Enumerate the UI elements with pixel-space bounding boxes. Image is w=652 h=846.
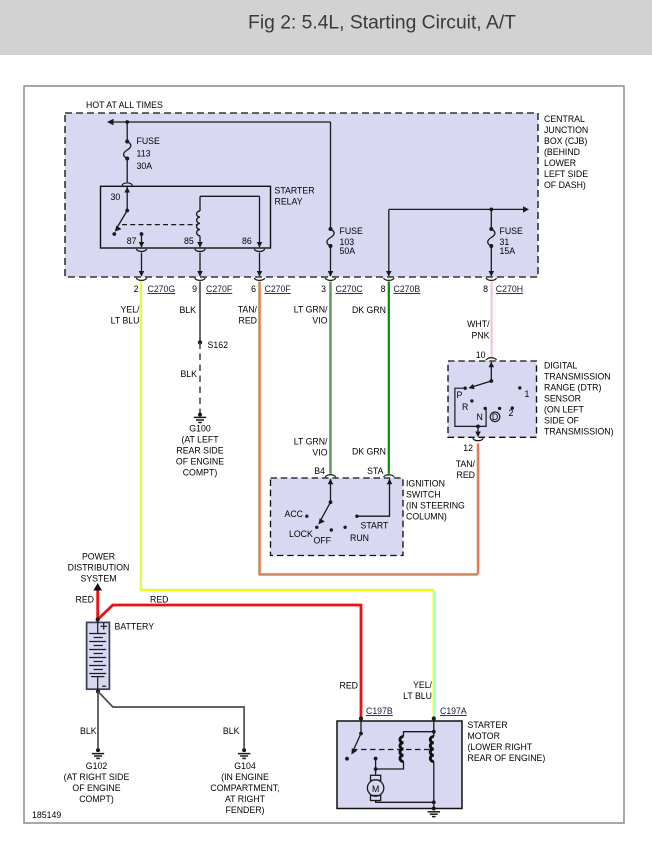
- svg-text:15A: 15A: [500, 246, 516, 256]
- svg-text:TAN/: TAN/: [238, 305, 258, 315]
- svg-text:FUSE: FUSE: [137, 136, 161, 146]
- svg-text:30A: 30A: [137, 161, 153, 171]
- svg-text:SIDE OF: SIDE OF: [544, 416, 579, 426]
- label G102: [64, 761, 130, 804]
- svg-text:BOX (CJB): BOX (CJB): [544, 136, 587, 146]
- svg-text:C270B: C270B: [394, 284, 421, 294]
- svg-text:(ON LEFT: (ON LEFT: [544, 405, 585, 415]
- battery: [87, 622, 110, 690]
- node C197A junction: [432, 730, 436, 734]
- svg-text:REAR SIDE: REAR SIDE: [176, 446, 223, 456]
- wire coil2 to ground: [433, 762, 435, 809]
- label CENTRAL JUNCTION BOX: [544, 114, 588, 190]
- ground G104: [238, 748, 250, 758]
- node C197B end: [359, 716, 363, 720]
- svg-text:DISTRIBUTION: DISTRIBUTION: [68, 563, 130, 573]
- wire motor to ground bus: [376, 801, 434, 803]
- svg-text:DIGITAL: DIGITAL: [544, 361, 578, 371]
- svg-text:LT BLU: LT BLU: [111, 316, 140, 326]
- wire C197A through coil2: [433, 721, 435, 737]
- ground G102: [92, 748, 104, 758]
- svg-text:LOCK: LOCK: [289, 529, 313, 539]
- wire fuse113 drop: [126, 122, 128, 141]
- node C197A end: [432, 716, 436, 720]
- pin 85 wire: [199, 236, 201, 247]
- svg-text:BATTERY: BATTERY: [115, 622, 155, 632]
- DTR position N: [484, 407, 487, 410]
- wire fuse103 to C270C: [330, 246, 332, 276]
- node fuse113 tap: [125, 120, 129, 124]
- svg-text:LT GRN/: LT GRN/: [294, 437, 328, 447]
- wire coil1 top: [404, 732, 434, 737]
- node motor ground junction: [432, 800, 436, 804]
- svg-text:C270F: C270F: [206, 284, 232, 294]
- DTR sensor box: [448, 361, 537, 437]
- svg-text:STARTER: STARTER: [275, 186, 315, 196]
- connector arc STA: [384, 475, 394, 478]
- svg-text:85: 85: [184, 236, 194, 246]
- svg-text:BLK: BLK: [180, 369, 197, 379]
- svg-text:RANGE (DTR): RANGE (DTR): [544, 383, 601, 393]
- node pin12 tap: [476, 425, 480, 429]
- title bar: [0, 0, 652, 55]
- svg-text:OFF: OFF: [314, 536, 332, 546]
- connector arcs below CJB: [136, 278, 496, 281]
- wire coil top loop to pin 86: [200, 196, 260, 247]
- svg-text:N: N: [477, 412, 483, 422]
- svg-text:S162: S162: [208, 340, 229, 350]
- svg-text:SYSTEM: SYSTEM: [81, 574, 117, 584]
- svg-text:P: P: [457, 390, 463, 400]
- label STARTER MOTOR: [468, 720, 546, 763]
- contact OFF: [330, 528, 333, 531]
- svg-text:STARTER: STARTER: [468, 720, 508, 730]
- solenoid switch: [360, 719, 362, 734]
- svg-text:FUSE: FUSE: [340, 226, 364, 236]
- contact ACC: [305, 515, 308, 518]
- wire feed B (to fuse 31): [389, 209, 526, 276]
- svg-text:G104: G104: [234, 761, 256, 771]
- svg-text:(IN STEERING: (IN STEERING: [406, 501, 465, 511]
- wire YEL/LT BLU C270G run: [140, 282, 434, 717]
- svg-text:MOTOR: MOTOR: [468, 731, 500, 741]
- contact RUN: [343, 526, 346, 529]
- svg-text:2: 2: [134, 284, 139, 294]
- svg-text:LT BLU: LT BLU: [403, 691, 432, 701]
- DTR exit arrow pin 12: [477, 426, 479, 436]
- wire fuse113 to relay pin30: [126, 159, 128, 183]
- wire BLK to G102: [97, 692, 99, 749]
- mech dashed link starter: [352, 749, 430, 751]
- svg-text:B4: B4: [314, 466, 325, 476]
- svg-text:FENDER): FENDER): [226, 805, 265, 815]
- svg-text:86: 86: [242, 236, 252, 246]
- svg-text:2: 2: [509, 408, 514, 418]
- svg-text:D: D: [492, 412, 498, 422]
- svg-text:113: 113: [137, 149, 151, 159]
- svg-text:C270H: C270H: [496, 284, 523, 294]
- svg-text:87: 87: [127, 236, 137, 246]
- svg-text:RED: RED: [239, 316, 257, 326]
- svg-text:(AT RIGHT SIDE: (AT RIGHT SIDE: [64, 772, 130, 782]
- label POWER DISTRIBUTION SYSTEM: [68, 552, 130, 584]
- DTR position 1: [518, 386, 521, 389]
- wires relay to CJB edge: [142, 253, 260, 276]
- svg-text:TAN/: TAN/: [456, 459, 476, 469]
- connector arc pin 12: [473, 438, 483, 441]
- svg-text:TRANSMISSION): TRANSMISSION): [544, 427, 614, 437]
- svg-text:6: 6: [251, 284, 256, 294]
- arrow C270B exit: [386, 271, 392, 277]
- svg-text:POWER: POWER: [82, 552, 115, 562]
- pin row labels: [134, 284, 523, 294]
- node battery positive: [96, 617, 100, 621]
- svg-text:185149: 185149: [32, 810, 61, 820]
- label G100: [176, 424, 224, 478]
- svg-text:SWITCH: SWITCH: [406, 490, 441, 500]
- svg-text:OF DASH): OF DASH): [544, 180, 586, 190]
- svg-text:C270C: C270C: [336, 284, 363, 294]
- solenoid coil 2: [430, 737, 434, 762]
- svg-text:PNK: PNK: [472, 331, 490, 341]
- wire hot feed top: [110, 122, 331, 229]
- svg-text:12: 12: [463, 443, 473, 453]
- svg-text:R: R: [462, 402, 468, 412]
- svg-text:50A: 50A: [340, 246, 356, 256]
- svg-text:8: 8: [483, 284, 488, 294]
- wire START to STA: [357, 479, 390, 516]
- svg-text:8: 8: [381, 284, 386, 294]
- motor M: [367, 775, 383, 800]
- arrow to other circuits left: [107, 119, 114, 125]
- svg-text:RELAY: RELAY: [275, 197, 303, 207]
- splice S162: [198, 340, 202, 344]
- wire BLK C270F-9: [199, 282, 201, 343]
- relay coil: [197, 211, 200, 236]
- svg-text:COMPARTMENT,: COMPARTMENT,: [210, 783, 279, 793]
- contact P: [464, 387, 467, 390]
- wire BLK to G104: [98, 692, 244, 749]
- svg-text:LEFT SIDE: LEFT SIDE: [544, 169, 588, 179]
- DTR range bracket: [455, 388, 486, 426]
- svg-text:G100: G100: [189, 424, 211, 434]
- ignition switch arm: [329, 500, 333, 504]
- connector arc B4: [325, 475, 335, 478]
- svg-text:G102: G102: [86, 761, 108, 771]
- central junction box CJB: [65, 113, 538, 277]
- ignition switch box: [271, 478, 404, 556]
- svg-text:HOT AT ALL TIMES: HOT AT ALL TIMES: [86, 100, 163, 110]
- wire fuse31 to C270H: [490, 246, 492, 276]
- svg-text:TRANSMISSION: TRANSMISSION: [544, 372, 611, 382]
- svg-text:CENTRAL: CENTRAL: [544, 114, 585, 124]
- ground G100: [194, 413, 206, 423]
- svg-text:COLUMN): COLUMN): [406, 512, 447, 522]
- contact solenoid: [345, 757, 349, 761]
- svg-text:RED: RED: [340, 681, 358, 691]
- node fuse31 tap: [489, 208, 493, 212]
- contact 87a: [112, 232, 116, 236]
- ignition entry arrow B4: [330, 479, 332, 502]
- relay switch arm: [125, 209, 129, 213]
- svg-text:ACC: ACC: [285, 509, 303, 519]
- ground starter case: [428, 807, 440, 817]
- DTR position 2: [511, 406, 514, 409]
- svg-text:BLK: BLK: [179, 305, 196, 315]
- svg-text:Fig 2: 5.4L, Starting Circuit,: Fig 2: 5.4L, Starting Circuit, A/T: [248, 13, 516, 34]
- pin 87 wire: [141, 234, 143, 247]
- svg-text:IGNITION: IGNITION: [406, 479, 445, 489]
- starter relay box: [101, 186, 271, 248]
- svg-text:RED: RED: [457, 470, 475, 480]
- svg-text:10: 10: [476, 350, 486, 360]
- fuse F113 30A: [124, 136, 160, 171]
- wire TAN/RED C270F-6 run: [259, 282, 479, 576]
- svg-text:YEL/: YEL/: [413, 680, 433, 690]
- svg-text:(BEHIND: (BEHIND: [544, 147, 580, 157]
- svg-text:OF ENGINE: OF ENGINE: [72, 783, 120, 793]
- motor feed stub: [374, 757, 378, 761]
- connector arc pin 10: [486, 358, 496, 361]
- label DIGITAL TRANSMISSION RANGE: [544, 361, 614, 437]
- svg-text:BLK: BLK: [223, 726, 240, 736]
- svg-text:START: START: [361, 521, 390, 531]
- svg-text:C270G: C270G: [148, 284, 176, 294]
- svg-text:JUNCTION: JUNCTION: [544, 125, 588, 135]
- svg-text:C197B: C197B: [366, 706, 393, 716]
- svg-text:BLK: BLK: [80, 726, 97, 736]
- connector arcs below relay: [136, 249, 146, 252]
- mech dashed link: [122, 224, 197, 226]
- svg-text:3: 3: [321, 284, 326, 294]
- svg-text:M: M: [372, 784, 379, 794]
- svg-text:VIO: VIO: [312, 448, 327, 458]
- contact 87 node: [140, 232, 144, 236]
- wire coil1 bottom to motor: [376, 762, 404, 770]
- svg-text:FUSE: FUSE: [500, 226, 524, 236]
- svg-text:LT GRN/: LT GRN/: [294, 305, 328, 315]
- svg-text:DK GRN: DK GRN: [352, 447, 386, 457]
- svg-text:(IN ENGINE: (IN ENGINE: [221, 772, 269, 782]
- wire DK GRN C270B: [388, 282, 390, 474]
- svg-text:VIO: VIO: [312, 316, 327, 326]
- contact LOCK: [315, 526, 318, 529]
- svg-text:RED: RED: [76, 595, 94, 605]
- wire RED battery feed: [96, 591, 99, 620]
- svg-text:RED: RED: [150, 595, 168, 605]
- svg-text:1: 1: [525, 389, 530, 399]
- DTR entry arrow: [490, 362, 492, 381]
- svg-text:YEL/: YEL/: [121, 305, 141, 315]
- svg-text:DK GRN: DK GRN: [352, 305, 386, 315]
- DTR position R: [470, 399, 473, 402]
- contact START: [355, 515, 358, 518]
- svg-text:C270F: C270F: [265, 284, 291, 294]
- fuse F31 15A: [488, 226, 523, 256]
- svg-text:OF ENGINE: OF ENGINE: [176, 457, 224, 467]
- svg-text:LOWER: LOWER: [544, 158, 576, 168]
- svg-text:(AT LEFT: (AT LEFT: [181, 435, 219, 445]
- svg-text:SENSOR: SENSOR: [544, 394, 581, 404]
- svg-text:(LOWER RIGHT: (LOWER RIGHT: [468, 742, 533, 752]
- starter motor box: [337, 721, 462, 809]
- svg-text:C197A: C197A: [440, 706, 467, 716]
- svg-text:COMPT): COMPT): [79, 794, 114, 804]
- DTR switch arm: [489, 379, 493, 383]
- svg-text:WHT/: WHT/: [467, 319, 490, 329]
- node battery negative: [96, 689, 100, 693]
- arrow to power distribution: [93, 583, 102, 591]
- fuse F103 50A: [327, 226, 363, 256]
- svg-text:9: 9: [192, 284, 197, 294]
- wire BLK dashed to G100: [199, 343, 201, 414]
- svg-text:REAR OF ENGINE): REAR OF ENGINE): [468, 753, 546, 763]
- DTR position D: [498, 407, 501, 410]
- svg-text:RUN: RUN: [350, 533, 369, 543]
- solenoid coil 1: [400, 737, 403, 762]
- svg-text:COMPT): COMPT): [183, 468, 218, 478]
- svg-text:STA: STA: [367, 466, 384, 476]
- arrow to other circuits right: [523, 206, 529, 212]
- label IGNITION SWITCH: [406, 479, 465, 522]
- connector arc pin 30: [122, 183, 132, 186]
- svg-text:30: 30: [111, 192, 121, 202]
- svg-text:AT RIGHT: AT RIGHT: [225, 794, 266, 804]
- label G104: [210, 761, 279, 815]
- wire LT GRN/VIO C270C: [330, 282, 331, 474]
- wire WHT/PNK C270H: [491, 282, 492, 357]
